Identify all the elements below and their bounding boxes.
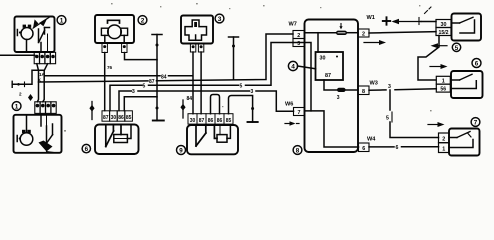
relay 6 terminal pins 87 30 86 85 (102, 111, 132, 121)
direction arrow right of pin W1-2 (364, 40, 386, 45)
connector label W7 (289, 22, 297, 28)
wire relay4 terminal 30 feed (317, 33, 319, 52)
pin 30 of switch 5 (436, 20, 451, 29)
pin W7-3 (293, 39, 305, 48)
wire relay9 pin85 to earth (229, 96, 255, 123)
wiper motor M2 (bottom-left) box (14, 115, 62, 153)
svg-text:30: 30 (111, 115, 117, 121)
component 3 connector pins (190, 44, 203, 53)
circled label 5 (452, 43, 460, 52)
svg-text:6: 6 (396, 145, 399, 151)
scan noise specks (64, 3, 432, 132)
earth point T4 (248, 121, 258, 123)
steering column switch unit (component 8) box (305, 20, 359, 153)
arrow left of circled 5 (431, 43, 448, 48)
left earth-lead wire with connector (12, 70, 44, 87)
pin W7-2 (293, 31, 305, 40)
component 2 connector pins (102, 43, 127, 53)
pump symbol (185, 20, 207, 40)
pin 1 of switch 6 (436, 76, 450, 84)
earth point T3 (153, 120, 164, 122)
ignition switch (component 5) body (452, 14, 482, 41)
relay 6 internal contacts and coil (106, 125, 131, 147)
motor M1 internal switch contacts (27, 28, 50, 53)
svg-text:85: 85 (226, 118, 232, 124)
svg-text:1: 1 (60, 18, 64, 25)
circled label 4 with leader (288, 61, 315, 70)
wire 6 pin W4-6 to switch 7 pin 1 (369, 145, 439, 151)
motor M1 wiper arm flag (33, 17, 49, 28)
svg-text:1: 1 (15, 104, 19, 111)
wire component2 left lead down to relay terminal 87 (105, 53, 113, 111)
svg-text:56: 56 (440, 87, 446, 93)
svg-text:3: 3 (132, 89, 135, 95)
svg-text:6: 6 (362, 146, 365, 152)
svg-text:1: 1 (442, 146, 445, 152)
svg-text:2: 2 (141, 18, 145, 25)
switch 7 internal contacts (449, 132, 473, 148)
tiny label 2 (19, 92, 22, 97)
wire Wa (84) (44, 75, 192, 81)
wire We (3) relay terminal 86 to pin W6-7 (119, 89, 294, 111)
pin W4-6 (359, 143, 370, 152)
wire code label K (38, 78, 42, 83)
svg-text:7: 7 (474, 120, 478, 127)
pin 56 of switch 6 (436, 84, 450, 93)
svg-text:84: 84 (161, 75, 167, 81)
relay 9 terminal pins 30 87 86 86 85 (188, 114, 233, 124)
in-line connector T2 (229, 37, 239, 80)
circled label 9 (177, 146, 186, 155)
pin W6-7 (294, 108, 305, 117)
jumper loop between relay9 pins 86-86 (211, 95, 220, 114)
svg-text:W3: W3 (370, 81, 378, 87)
switch 5 internal contacts (452, 17, 475, 33)
svg-text:15/2: 15/2 (438, 30, 448, 36)
component 2 leads (105, 35, 124, 43)
svg-text:86: 86 (118, 115, 124, 121)
relay 6 body (95, 125, 139, 155)
svg-text:87: 87 (103, 115, 109, 121)
junction diamond mark (28, 94, 33, 101)
wash/wipe switch (component 6) body (451, 71, 483, 98)
washer pump (component 3) box (181, 16, 213, 44)
circled label 7 (471, 118, 480, 127)
svg-text:2: 2 (362, 32, 365, 38)
pin W1-2 (358, 29, 369, 38)
svg-text:W6: W6 (285, 102, 293, 108)
connector label W6 (285, 102, 293, 108)
arrow above switch 6 (430, 64, 448, 69)
fuse F2 (337, 88, 346, 92)
motor M2 wiper arm flag (39, 141, 54, 153)
wire code label 1A (39, 72, 46, 77)
svg-text:3: 3 (218, 16, 222, 23)
svg-text:85: 85 (126, 115, 132, 121)
relay 9 body (187, 125, 238, 154)
wire to left edge (y55) (0, 54, 35, 56)
connector label W1 (367, 15, 375, 21)
component 2 brushes (101, 28, 127, 35)
svg-text:30: 30 (320, 56, 326, 62)
wiper motor M1 (top-left) box (15, 17, 55, 53)
svg-text:W7: W7 (289, 22, 297, 28)
connector label W4 (367, 137, 376, 143)
circled label 6 (switch) (472, 59, 481, 68)
svg-text:2: 2 (19, 92, 22, 97)
svg-text:8: 8 (362, 89, 365, 95)
motor M1 armature circle (21, 25, 33, 40)
svg-text:3: 3 (337, 95, 340, 101)
wire component3 left lead down to relay9 terminal 30 (84) (187, 52, 194, 114)
pin W3-8 (358, 86, 369, 95)
splice stub near relay 9 (180, 100, 185, 118)
internal wire relay4 87 to fuse2 to pin W3-8 (324, 80, 358, 90)
svg-text:87: 87 (199, 118, 205, 124)
connector label W3 (370, 81, 378, 87)
battery plus feed arrow (383, 7, 436, 25)
wire pin W1-2 to terminal 15/2 (369, 32, 436, 33)
wire 15/2 down to switch 6 pin 1 (418, 36, 439, 81)
intermittent relay (component 4) box (316, 52, 344, 80)
motor M2 thermal contact (17, 136, 21, 142)
circled label 3 (215, 14, 224, 23)
svg-text:5: 5 (240, 83, 243, 89)
svg-text:86: 86 (217, 118, 223, 124)
svg-text:4: 4 (291, 64, 295, 71)
svg-text:W4: W4 (367, 137, 376, 143)
svg-text:5: 5 (455, 45, 459, 52)
pin 15/2 of switch 5 (436, 28, 451, 37)
svg-text:30: 30 (190, 118, 196, 124)
fuse F1 (336, 31, 347, 35)
switch 6 internal contacts (451, 74, 476, 88)
arrow above fuse F1 (339, 24, 342, 30)
circled label 2 (138, 16, 147, 25)
wire component3 right lead down to relay9 terminal 87 (200, 52, 202, 114)
circled label 1 (bottom motor) (12, 102, 21, 111)
arrow left of circled 7 (428, 122, 445, 127)
svg-text:86: 86 (208, 118, 214, 124)
switch (component 7) body (449, 129, 480, 156)
motor M2 internal switch contacts (27, 115, 53, 143)
svg-text:3: 3 (388, 84, 391, 90)
pin 1 of switch 7 (439, 143, 450, 153)
wire stubs joining earth rail (124, 53, 157, 111)
motor M2 armature circle (20, 130, 33, 146)
washer motor assembly (component 2) box (95, 15, 134, 43)
svg-text:5: 5 (386, 116, 389, 122)
internal wire pin W7-2 to fuse to pin W1-2 (305, 32, 359, 34)
label 3 below fuse2 (337, 95, 340, 101)
internal wire pin W6-7 to pin W4-6 (305, 111, 359, 147)
svg-text:84: 84 (187, 96, 193, 102)
svg-text:8: 8 (296, 148, 300, 155)
svg-text:87: 87 (325, 73, 331, 79)
arrow junction mark below pin W6-7 (285, 121, 299, 126)
svg-text:W1: W1 (367, 15, 375, 21)
svg-text:2: 2 (442, 137, 445, 143)
svg-text:5: 5 (143, 84, 146, 90)
circled label 1 (top motor) (57, 16, 66, 25)
svg-text:87: 87 (149, 79, 155, 85)
wire 3 pin W3-8 to switch 6 pin 56 (369, 84, 436, 90)
pin 2 of switch 7 (439, 133, 450, 143)
wire Wd (5) relay terminal 30 to pin W7-3 (110, 43, 293, 111)
svg-text:6: 6 (475, 61, 479, 68)
motor M1 thermal contact (17, 30, 21, 36)
svg-text:6: 6 (85, 146, 89, 153)
internal wire pin W7-3 down (293, 43, 311, 111)
svg-text:76: 76 (107, 65, 113, 70)
circled label 8 (293, 146, 302, 155)
wire 5 branch down to switch 7 pin 2 (386, 90, 439, 138)
relay 9 internal contacts and coil (196, 125, 230, 146)
svg-text:9: 9 (179, 148, 183, 155)
svg-text:3: 3 (297, 41, 300, 47)
component 2 motor circle (108, 25, 122, 39)
connector pins above motor M2 (35, 102, 56, 114)
svg-text:7: 7 (298, 110, 301, 116)
svg-text:3: 3 (251, 89, 254, 95)
wire funnel below pins (37, 64, 48, 102)
component 2 rotation arrow (108, 20, 120, 23)
circled label 6 (82, 144, 90, 153)
earth rail with in-line connector T1 (152, 35, 162, 121)
connector pins under motor M1 (34, 52, 55, 63)
splice stub near relay 6 (89, 102, 94, 120)
wire Wb (87) to pin W7-2 (39, 34, 294, 85)
